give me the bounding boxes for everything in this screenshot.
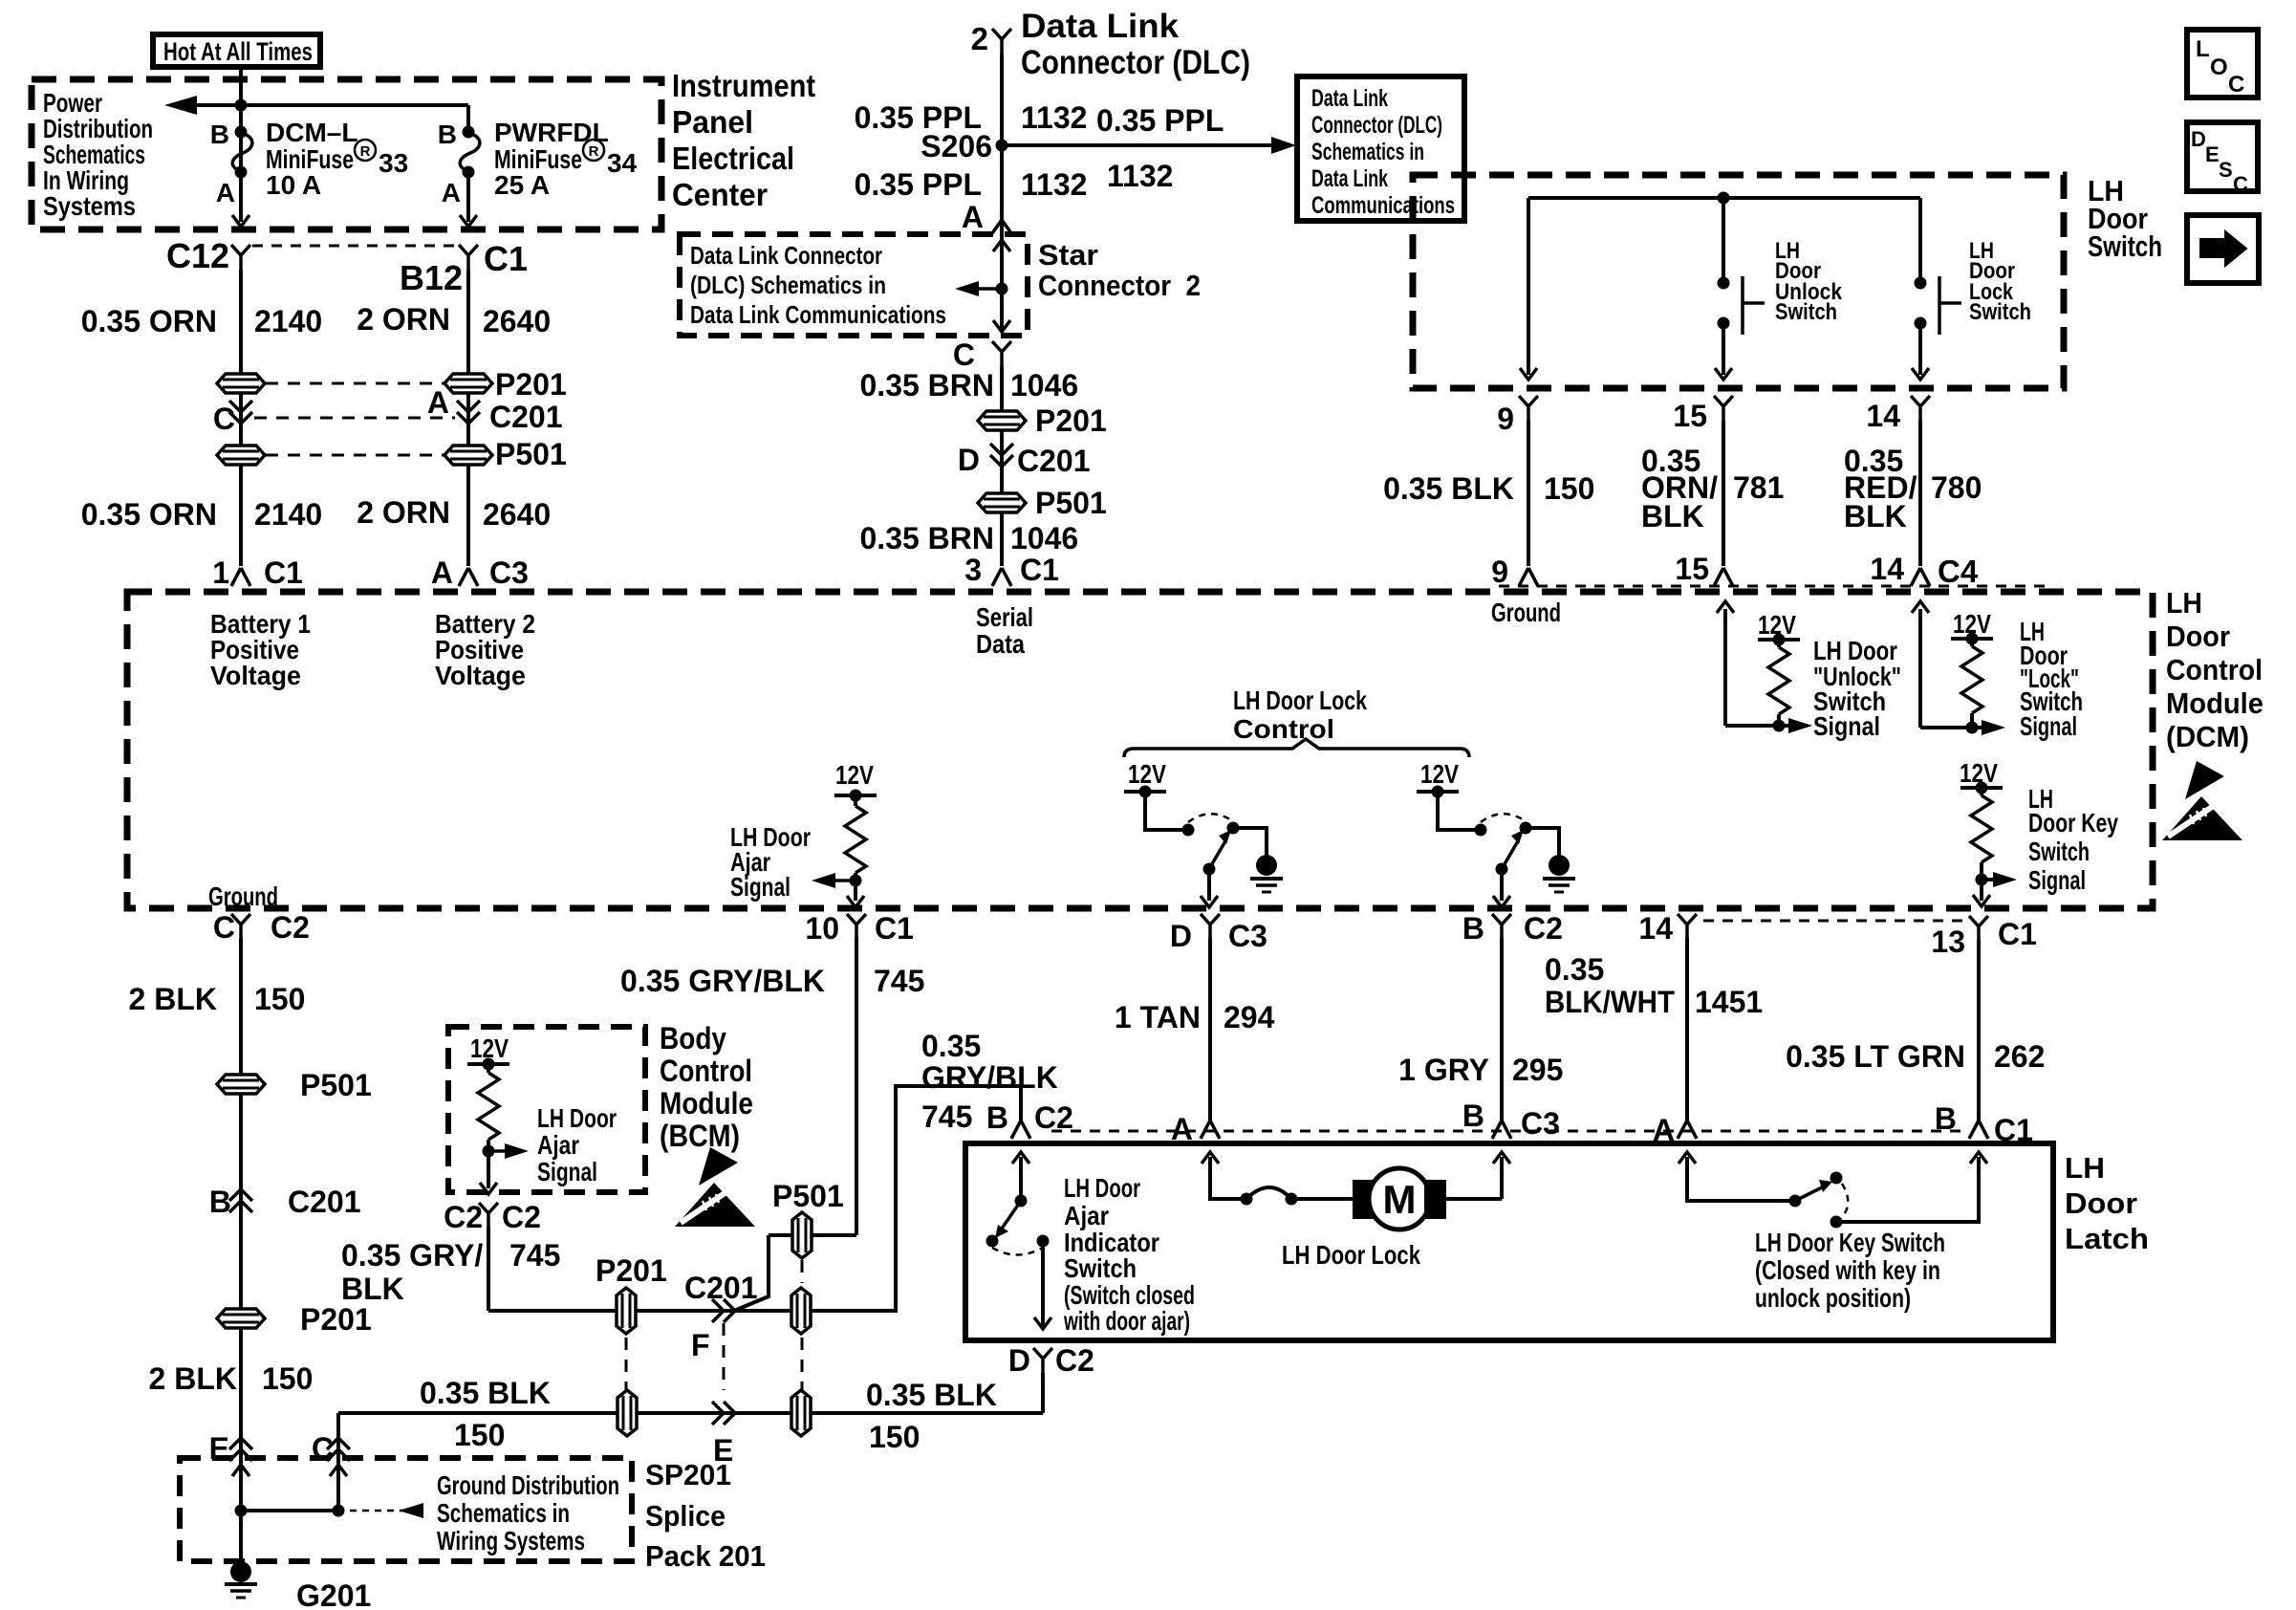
svg-text:Voltage: Voltage [435,661,526,690]
svg-text:150: 150 [254,982,305,1016]
svg-text:Communications: Communications [1311,192,1455,219]
svg-text:C1: C1 [484,239,528,278]
svg-text:0.35 BLK: 0.35 BLK [866,1378,997,1412]
svg-text:1132: 1132 [1021,167,1087,202]
svg-text:C: C [2233,172,2248,196]
svg-text:GRY/BLK: GRY/BLK [921,1060,1058,1095]
svg-text:P501: P501 [300,1068,372,1102]
svg-text:0.35 GRY/: 0.35 GRY/ [341,1238,483,1273]
svg-text:15: 15 [1675,552,1709,586]
svg-text:B: B [1462,911,1484,946]
svg-text:C3: C3 [489,555,529,590]
svg-text:Switch: Switch [1775,299,1837,325]
svg-text:10 A: 10 A [266,170,321,200]
svg-text:Electrical: Electrical [672,141,794,176]
svg-text:1451: 1451 [1695,985,1763,1019]
svg-text:M: M [1383,1177,1417,1222]
svg-text:1 GRY: 1 GRY [1398,1053,1489,1087]
svg-text:LH Door Key Switch: LH Door Key Switch [1755,1228,1945,1257]
svg-text:Ajar: Ajar [537,1130,579,1160]
svg-text:R: R [360,143,371,160]
svg-text:Instrument: Instrument [672,68,815,103]
svg-text:C: C [312,1431,334,1466]
svg-text:Hot At All Times: Hot At All Times [163,37,313,66]
svg-text:S206: S206 [921,129,992,163]
svg-text:262: 262 [1994,1039,2045,1074]
svg-text:D: D [1008,1343,1030,1378]
svg-text:LH Door Lock: LH Door Lock [1233,685,1367,715]
svg-text:Door: Door [2166,620,2230,653]
svg-text:Signal: Signal [537,1157,597,1186]
svg-text:745: 745 [874,964,924,998]
svg-text:1132: 1132 [1021,100,1087,135]
svg-text:Signal: Signal [2028,865,2086,895]
svg-text:Door Key: Door Key [2028,808,2118,838]
svg-text:1 TAN: 1 TAN [1115,1000,1201,1034]
svg-text:12V: 12V [1128,759,1166,789]
svg-text:P501: P501 [772,1179,844,1213]
svg-text:Ground Distribution: Ground Distribution [437,1470,619,1500]
svg-text:E: E [2205,142,2220,166]
svg-text:(DLC) Schematics in: (DLC) Schematics in [690,271,886,299]
svg-text:B: B [438,120,457,149]
svg-text:C1: C1 [1020,553,1059,587]
svg-text:A: A [427,385,449,420]
svg-text:C3: C3 [1521,1106,1560,1141]
svg-text:0.35: 0.35 [921,1029,981,1063]
svg-text:150: 150 [454,1418,505,1452]
svg-text:Signal: Signal [1813,711,1880,741]
svg-text:Ajar: Ajar [1064,1201,1109,1230]
svg-text:0.35 BRN: 0.35 BRN [860,521,995,555]
svg-text:33: 33 [379,148,408,178]
svg-text:14: 14 [1870,552,1904,586]
svg-text:0.35 PPL: 0.35 PPL [855,167,982,202]
svg-text:SP201: SP201 [645,1458,731,1491]
svg-text:0.35 BLK: 0.35 BLK [1383,471,1514,506]
svg-text:P201: P201 [1035,403,1107,438]
svg-text:A: A [442,178,461,207]
svg-text:P201: P201 [596,1253,667,1288]
svg-text:P501: P501 [495,437,567,471]
svg-text:2 BLK: 2 BLK [129,982,217,1016]
svg-text:LH Door: LH Door [1064,1173,1140,1203]
svg-text:12V: 12V [835,760,874,790]
svg-text:9: 9 [1497,402,1514,436]
svg-text:P201: P201 [300,1302,372,1337]
svg-text:745: 745 [921,1099,972,1134]
svg-text:0.35: 0.35 [1545,952,1604,987]
svg-text:Center: Center [672,177,768,212]
svg-text:13: 13 [1931,925,1965,959]
svg-text:C1: C1 [1998,917,2037,951]
svg-text:LH: LH [2065,1151,2105,1185]
svg-text:unlock position): unlock position) [1755,1283,1911,1313]
svg-text:C1: C1 [875,911,914,946]
svg-text:0.35 LT GRN: 0.35 LT GRN [1786,1039,1965,1074]
svg-text:14: 14 [1638,911,1673,946]
svg-text:C2: C2 [1055,1343,1094,1378]
svg-text:150: 150 [262,1361,313,1396]
svg-text:C12: C12 [166,236,229,275]
svg-text:C2: C2 [502,1200,541,1234]
svg-text:B: B [209,1185,231,1219]
svg-text:9: 9 [1491,555,1508,589]
svg-text:Signal: Signal [2020,711,2077,741]
svg-text:B12: B12 [400,258,463,297]
svg-text:A: A [1171,1112,1193,1146]
svg-text:C: C [213,402,235,436]
svg-text:Ground: Ground [208,881,278,911]
svg-text:Wiring Systems: Wiring Systems [437,1526,585,1556]
svg-text:1132: 1132 [1107,159,1173,193]
svg-text:C2: C2 [1524,911,1563,946]
svg-text:R: R [589,143,599,160]
svg-text:C201: C201 [684,1271,758,1305]
svg-text:LH Door: LH Door [537,1103,617,1133]
svg-text:Data: Data [976,629,1025,659]
svg-text:Data Link: Data Link [1311,165,1388,192]
svg-text:745: 745 [509,1238,560,1273]
svg-text:295: 295 [1512,1053,1563,1087]
svg-text:Data Link Connector: Data Link Connector [690,241,882,270]
svg-text:1046: 1046 [1010,521,1078,555]
svg-text:A: A [216,178,235,207]
svg-text:O: O [2210,54,2228,80]
svg-text:Door: Door [2065,1186,2137,1220]
svg-text:P501: P501 [1035,486,1107,520]
svg-text:2640: 2640 [483,304,551,338]
svg-text:Module: Module [2166,686,2264,720]
svg-text:294: 294 [1224,1000,1275,1034]
svg-text:2 ORN: 2 ORN [357,302,450,337]
svg-text:C3: C3 [1228,919,1267,953]
svg-text:B: B [210,120,229,149]
svg-text:C4: C4 [1938,554,1979,589]
svg-text:3: 3 [964,553,982,587]
svg-text:14: 14 [1866,399,1900,433]
svg-text:0.35 GRY/BLK: 0.35 GRY/BLK [620,964,825,998]
svg-text:with door ajar): with door ajar) [1063,1306,1190,1336]
svg-text:C201: C201 [288,1185,361,1219]
svg-text:Data Link: Data Link [1311,85,1388,112]
svg-text:34: 34 [607,148,638,178]
svg-text:0.35 ORN: 0.35 ORN [81,304,217,338]
svg-text:D: D [1170,919,1192,953]
svg-text:A: A [431,555,453,590]
svg-text:Voltage: Voltage [210,661,301,690]
svg-text:0.35 PPL: 0.35 PPL [1096,103,1224,138]
svg-text:BLK: BLK [341,1272,404,1306]
svg-text:F: F [691,1328,710,1362]
svg-text:D: D [958,443,980,477]
svg-text:G201: G201 [296,1578,371,1610]
svg-text:C2: C2 [271,910,310,945]
svg-text:Data Link: Data Link [1021,8,1180,45]
svg-text:15: 15 [1673,399,1707,433]
svg-text:Schematics in: Schematics in [1311,139,1424,165]
svg-text:D: D [2191,127,2206,151]
svg-text:Panel: Panel [672,104,753,140]
svg-text:1046: 1046 [1010,368,1078,402]
svg-text:Data Link Communications: Data Link Communications [690,300,946,329]
svg-text:Ground: Ground [1491,598,1561,627]
svg-text:2140: 2140 [254,497,322,532]
svg-text:781: 781 [1733,470,1784,505]
svg-text:L: L [2196,36,2210,62]
svg-text:DCM–L: DCM–L [266,118,357,147]
svg-text:10: 10 [805,911,839,946]
svg-text:(BCM): (BCM) [660,1119,740,1153]
svg-text:Body: Body [660,1021,726,1055]
svg-text:C2: C2 [444,1200,483,1234]
svg-text:150: 150 [869,1420,920,1454]
svg-text:C1: C1 [264,555,303,590]
svg-text:Splice: Splice [645,1499,726,1533]
svg-text:2 ORN: 2 ORN [357,495,450,530]
svg-text:A: A [962,200,984,234]
svg-text:2140: 2140 [254,304,322,338]
svg-text:LH Door Lock: LH Door Lock [1282,1240,1420,1270]
svg-text:BLK: BLK [1641,499,1704,533]
svg-text:1: 1 [212,555,229,590]
svg-text:0.35 BLK: 0.35 BLK [420,1376,551,1410]
svg-text:Schematics in: Schematics in [437,1498,570,1528]
svg-text:B: B [1462,1099,1484,1133]
svg-text:C1: C1 [1994,1113,2033,1147]
svg-text:Switch: Switch [2028,837,2090,866]
svg-text:B: B [986,1100,1008,1135]
svg-text:Signal: Signal [730,872,791,902]
svg-text:Switch: Switch [1064,1253,1137,1283]
svg-text:S: S [2219,158,2233,182]
svg-text:C: C [213,910,235,945]
svg-text:Star: Star [1038,238,1098,272]
svg-text:Serial: Serial [976,602,1033,632]
svg-text:Control: Control [1233,714,1334,744]
svg-text:Module: Module [660,1086,753,1120]
svg-text:Systems: Systems [43,191,136,221]
svg-text:P201: P201 [495,367,567,402]
svg-text:12V: 12V [1420,759,1459,789]
svg-text:BLK: BLK [1844,499,1907,533]
svg-text:2: 2 [971,21,988,56]
svg-text:(DCM): (DCM) [2166,720,2249,753]
svg-text:C201: C201 [489,400,563,434]
svg-text:LH: LH [2166,586,2202,620]
svg-text:Connector 2: Connector 2 [1038,269,1201,302]
svg-text:150: 150 [1544,471,1594,506]
svg-text:0.35 BRN: 0.35 BRN [860,368,995,402]
svg-text:C: C [953,337,975,372]
svg-text:E: E [209,1431,229,1466]
svg-text:Connector (DLC): Connector (DLC) [1021,44,1250,81]
svg-text:BLK/WHT: BLK/WHT [1545,985,1675,1019]
svg-text:C: C [2228,72,2244,98]
svg-text:Switch: Switch [2088,229,2162,263]
svg-text:Latch: Latch [2065,1222,2149,1255]
svg-text:Control: Control [660,1054,752,1088]
svg-text:Connector (DLC): Connector (DLC) [1311,112,1442,139]
svg-text:C201: C201 [1017,444,1091,478]
svg-text:780: 780 [1931,470,1982,505]
svg-text:Switch: Switch [1969,299,2031,325]
svg-text:2640: 2640 [483,497,551,532]
svg-text:Control: Control [2166,653,2263,686]
svg-text:Pack 201: Pack 201 [645,1539,766,1573]
svg-text:0.35 ORN: 0.35 ORN [81,497,217,532]
svg-text:25 A: 25 A [494,170,550,200]
svg-text:(Closed with key in: (Closed with key in [1755,1255,1940,1285]
svg-text:2 BLK: 2 BLK [149,1361,237,1396]
